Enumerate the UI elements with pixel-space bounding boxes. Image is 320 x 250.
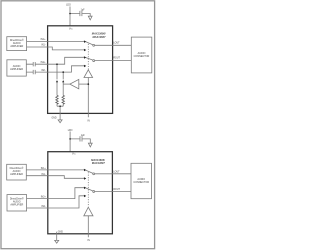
svg-text:CONNECTOR: CONNECTOR: [133, 181, 149, 184]
svg-text:IN1+: IN1+: [41, 39, 47, 41]
svg-text:GND: GND: [51, 118, 56, 120]
op-amp U2a (up pointing): [84, 207, 93, 216]
capacitor C2: [33, 62, 35, 66]
capacitor C1 plates: [80, 11, 82, 16]
svg-text:LDO: LDO: [68, 130, 73, 132]
svg-text:VCC: VCC: [69, 29, 74, 31]
contact arrow S1b: [84, 49, 86, 52]
svg-text:ROUT: ROUT: [113, 58, 120, 60]
contact arrow S4b: [84, 195, 86, 198]
node dot sense input: [87, 83, 89, 85]
contact arrow S3a: [84, 169, 86, 172]
resistor R2: [62, 95, 64, 104]
svg-text:AMPLIFIER: AMPLIFIER: [10, 45, 23, 48]
DirectDrive audio amplifier box: [7, 37, 27, 51]
switch S3 throw: [86, 170, 93, 173]
sense input wire: [87, 78, 89, 118]
ground (supply 1): [88, 16, 92, 20]
svg-text:CONNECTOR: CONNECTOR: [134, 55, 150, 58]
ground symbol GND2: [55, 240, 59, 243]
wire IN4 c2: [27, 196, 85, 208]
node dot supply 1: [69, 13, 71, 15]
switch S2 throw: [86, 58, 93, 60]
svg-text:ROUT: ROUT: [113, 189, 120, 191]
supply wire 2: [70, 132, 90, 152]
svg-text:IN: IN: [87, 121, 90, 123]
op-amp U1b (up pointing): [84, 70, 93, 78]
switch S2 output wire: [95, 60, 132, 62]
DirectDrive audio amplifier box 3: [7, 195, 27, 211]
switch control dashed line: [87, 44, 89, 70]
sense join wire: [57, 106, 63, 119]
svg-text:IN: IN: [87, 240, 90, 242]
border frame: [1, 1, 155, 249]
node dot supply 2: [69, 138, 71, 140]
svg-text:1µF: 1µF: [81, 9, 86, 11]
audio connector box 1: [131, 37, 152, 73]
svg-text:IN1-: IN1-: [41, 174, 46, 176]
svg-text:IN2+: IN2+: [41, 62, 47, 64]
svg-text:LDO: LDO: [66, 5, 71, 7]
switch S3 output wire: [95, 173, 131, 175]
contact arrow S2b: [84, 65, 86, 68]
svg-text:AMPLIFIER: AMPLIFIER: [10, 68, 23, 71]
sense line 2: [62, 72, 64, 106]
wire IN3 c2: [27, 188, 85, 199]
switch arrow sense 1: [56, 80, 58, 82]
wire IN1: [27, 41, 85, 43]
node LDO supply wire: [70, 7, 90, 26]
IC U2 MAX13606/MAX13607 outline: [48, 152, 113, 234]
switch control dashed line 2: [87, 172, 89, 207]
audio amplifier box: [7, 60, 26, 76]
svg-text:GND: GND: [58, 232, 63, 234]
contact arrow S4a: [84, 187, 86, 190]
switch arrow sense 2: [62, 80, 64, 82]
DirectDrive audio amplifier box 2: [7, 164, 27, 180]
contact arrow S1a: [84, 40, 86, 43]
svg-text:IN2-: IN2-: [41, 70, 46, 72]
svg-text:1µF: 1µF: [81, 135, 86, 137]
op-amp U1a (left pointing): [70, 79, 79, 88]
ground (supply 2): [88, 143, 92, 147]
switch S1 throw: [86, 42, 93, 45]
svg-text:MAX13607: MAX13607: [93, 35, 107, 39]
audio connector box 2: [131, 163, 152, 198]
resistor R1: [56, 95, 58, 104]
wire IN1 c2: [26, 169, 85, 171]
capacitor C4 plates: [80, 136, 82, 141]
switch S1 pole circle: [93, 44, 95, 46]
sense input wire 2: [87, 216, 89, 238]
svg-text:LOUT: LOUT: [113, 42, 120, 44]
node dot sense 1: [56, 63, 58, 65]
svg-text:IN2+: IN2+: [41, 197, 47, 199]
svg-text:IN1-: IN1-: [41, 45, 46, 47]
contact arrow S2a: [84, 56, 86, 59]
node dot sense 2: [62, 71, 64, 73]
capacitor C3: [33, 70, 35, 74]
svg-text:LOUT: LOUT: [113, 171, 120, 173]
svg-text:IN2-: IN2-: [41, 206, 46, 208]
ground symbol GND1: [58, 120, 62, 123]
wire IN2 c2: [26, 176, 85, 179]
svg-text:MAX13607: MAX13607: [92, 161, 106, 165]
comparator input wire: [79, 83, 89, 85]
switch S1 output wire: [95, 44, 132, 46]
svg-text:VCC: VCC: [72, 154, 77, 156]
switch S2 pole circle: [93, 60, 95, 62]
svg-text:IN1+: IN1+: [41, 168, 47, 170]
contact arrow S3b: [84, 177, 86, 180]
switch S4 output wire: [95, 191, 131, 193]
switch S3 pole circle: [93, 173, 95, 175]
switch S4 throw: [86, 188, 93, 191]
svg-text:AMPLIFIER: AMPLIFIER: [10, 173, 23, 176]
wire IN3: [26, 57, 85, 64]
gnd stub 2: [56, 232, 58, 241]
node dot join: [59, 105, 61, 107]
svg-text:AMPLIFIER: AMPLIFIER: [10, 204, 23, 207]
comparator output wire: [63, 83, 70, 85]
wire IN2: [27, 47, 85, 50]
IC U1 MAX13606/MAX13607 outline: [48, 26, 113, 114]
switch S4 pole circle: [93, 191, 95, 193]
wire IN4: [26, 66, 85, 72]
sense line 1: [56, 64, 58, 106]
